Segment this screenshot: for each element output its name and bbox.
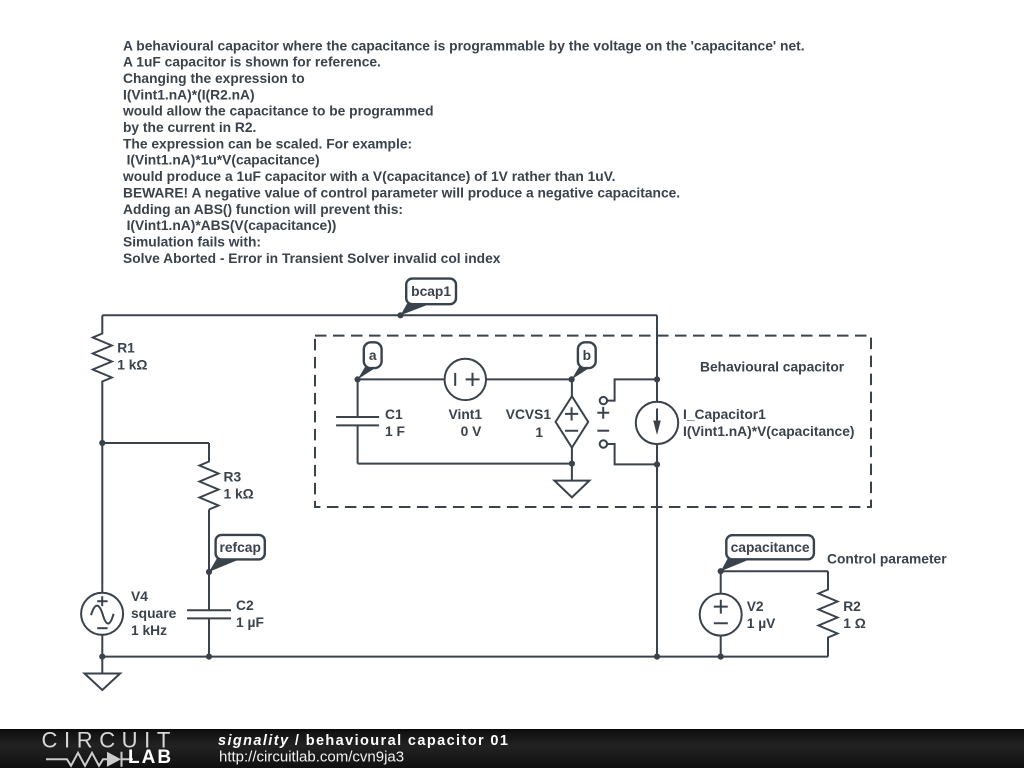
svg-text:square: square [131, 606, 177, 621]
wire V4 bottom [101, 635, 103, 657]
resistor R2 [819, 571, 866, 656]
pin plus sense terminal [597, 379, 657, 418]
junction V4 bottom [99, 654, 105, 660]
svg-text:bcap1: bcap1 [411, 284, 451, 299]
svg-text:I(Vint1.nA)*(I(R2.nA): I(Vint1.nA)*(I(R2.nA) [123, 87, 255, 102]
capacitor C1 [336, 379, 405, 463]
svg-text:Behavioural capacitor: Behavioural capacitor [700, 360, 845, 375]
svg-text:C1: C1 [385, 407, 403, 422]
flag refcap [209, 535, 265, 572]
junction refcap attach [206, 569, 212, 575]
junction main vertical bottom [654, 654, 660, 660]
svg-text:signality / behavioural capaci: signality / behavioural capacitor 01 [218, 733, 509, 749]
wire R3 to C2 [208, 510, 210, 611]
svg-text:Changing the expression to: Changing the expression to [123, 71, 305, 86]
wire V2 top [720, 571, 722, 594]
resistor R1 [93, 315, 148, 443]
svg-text:http://circuitlab.com/cvn9ja3: http://circuitlab.com/cvn9ja3 [219, 749, 404, 766]
junction R1 R3 branch [99, 440, 105, 446]
flag a [355, 342, 382, 382]
pin minus sense terminal [597, 431, 657, 465]
svg-text:refcap: refcap [219, 540, 260, 555]
wire top net bcap1 [102, 314, 657, 316]
wire inner top [358, 378, 572, 380]
dependent source VCVS1 [506, 379, 588, 463]
capacitor C2 [187, 598, 264, 657]
wire bottom net [102, 656, 828, 658]
ground V4 [85, 657, 121, 690]
svg-text:I(Vint1.nA)*V(capacitance): I(Vint1.nA)*V(capacitance) [683, 424, 854, 439]
resistor R3 [200, 443, 254, 510]
svg-text:a: a [369, 348, 377, 363]
voltage source Vint1 [445, 359, 486, 439]
svg-text:1 µF: 1 µF [236, 615, 264, 630]
svg-text:Solve Aborted - Error in Trans: Solve Aborted - Error in Transient Solve… [123, 251, 501, 266]
flag capacitance [718, 535, 814, 574]
svg-text:Vint1: Vint1 [449, 407, 483, 422]
junction sense top [654, 376, 660, 382]
svg-text:capacitance: capacitance [731, 540, 810, 555]
svg-text:Control parameter: Control parameter [827, 552, 947, 567]
svg-text:R1: R1 [117, 341, 135, 356]
current source I_Capacitor1 [636, 402, 855, 444]
svg-text:0 V: 0 V [461, 424, 483, 439]
wire main vertical [656, 315, 658, 656]
svg-text:R2: R2 [843, 599, 861, 614]
svg-text:R3: R3 [224, 470, 242, 485]
wire control top [721, 570, 828, 572]
svg-text:C2: C2 [236, 598, 254, 613]
wire branch to R3 [102, 442, 209, 444]
svg-text:I_Capacitor1: I_Capacitor1 [683, 407, 766, 422]
junction V2 bottom [718, 654, 724, 660]
footer bar [0, 729, 1024, 768]
svg-text:I(Vint1.nA)*ABS(V(capacitance): I(Vint1.nA)*ABS(V(capacitance)) [127, 218, 337, 233]
wire inner bottom [358, 463, 572, 465]
svg-text:VCVS1: VCVS1 [506, 407, 552, 422]
svg-text:would produce a 1uF capacitor: would produce a 1uF capacitor with a V(c… [122, 169, 615, 184]
dashed box behavioural capacitor [315, 336, 871, 507]
flag bcap1 [397, 279, 456, 319]
annotation description text [122, 38, 805, 265]
svg-text:1 kHz: 1 kHz [131, 623, 167, 638]
junction sense bottom [654, 461, 660, 467]
junction C2 bottom [206, 654, 212, 660]
svg-text:1 kΩ: 1 kΩ [117, 358, 147, 373]
svg-text:1 µV: 1 µV [747, 616, 776, 631]
logo CIRCUIT LAB [42, 727, 177, 768]
svg-text:A 1uF capacitor is shown for r: A 1uF capacitor is shown for reference. [123, 55, 381, 70]
svg-text:Simulation fails with:: Simulation fails with: [123, 235, 261, 250]
svg-text:V2: V2 [747, 599, 764, 614]
svg-text:by the current in R2.: by the current in R2. [123, 120, 256, 135]
svg-text:1 kΩ: 1 kΩ [224, 487, 254, 502]
ground VCVS1 [554, 464, 589, 498]
voltage source V4 [81, 589, 176, 638]
wire V2 bottom [720, 635, 722, 656]
svg-text:would allow the capacitance to: would allow the capacitance to be progra… [122, 104, 434, 119]
svg-text:1 F: 1 F [385, 424, 405, 439]
wire V4 top [101, 443, 103, 593]
svg-text:V4: V4 [131, 589, 148, 604]
junction VCVS bottom [569, 461, 575, 467]
svg-text:1 Ω: 1 Ω [843, 616, 866, 631]
voltage source V2 [700, 594, 776, 636]
flag b [569, 342, 596, 382]
svg-text:BEWARE! A negative value of co: BEWARE! A negative value of control para… [123, 185, 680, 200]
svg-text:1: 1 [535, 425, 543, 440]
svg-text:LAB: LAB [128, 747, 173, 768]
svg-text:I(Vint1.nA)*1u*V(capacitance): I(Vint1.nA)*1u*V(capacitance) [127, 153, 320, 168]
svg-text:Adding an ABS() function will: Adding an ABS() function will prevent th… [123, 202, 403, 217]
svg-text:b: b [583, 348, 591, 363]
svg-text:A behavioural capacitor where: A behavioural capacitor where the capaci… [123, 38, 805, 53]
svg-text:The expression can be scaled.: The expression can be scaled. For exampl… [123, 136, 412, 151]
